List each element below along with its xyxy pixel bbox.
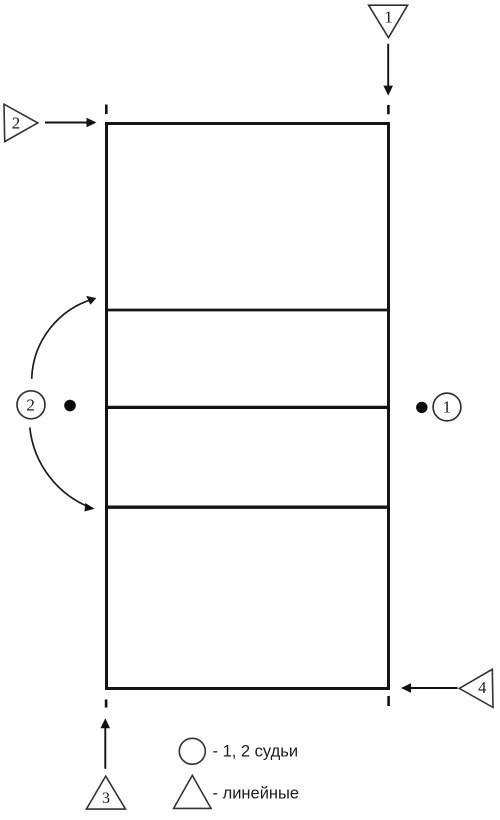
svg-text:3: 3 xyxy=(102,790,110,807)
svg-text:4: 4 xyxy=(478,678,486,697)
svg-text:- линейные: - линейные xyxy=(213,785,300,803)
svg-text:- 1, 2 судьи: - 1, 2 судьи xyxy=(213,743,299,761)
svg-text:1: 1 xyxy=(384,8,393,27)
svg-text:1: 1 xyxy=(443,398,452,417)
svg-text:2: 2 xyxy=(26,396,35,415)
svg-text:2: 2 xyxy=(12,114,21,133)
